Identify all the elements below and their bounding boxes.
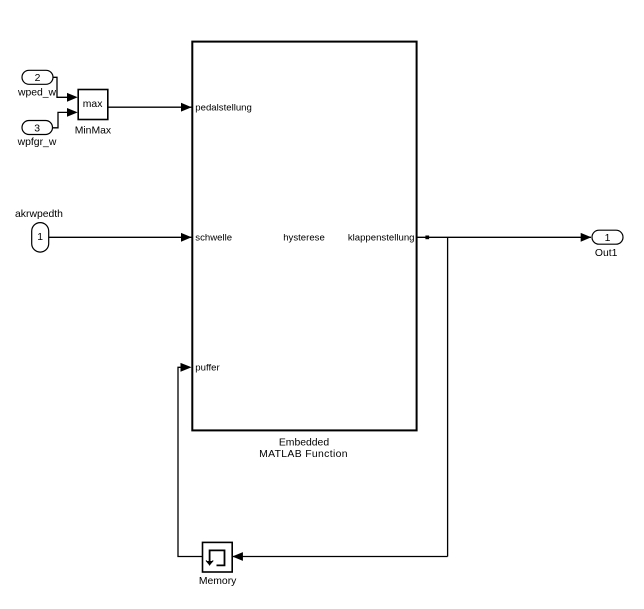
MinMax block <box>78 90 108 120</box>
outport 1 (Out1) <box>592 230 623 244</box>
wire klappenstellung to Out1 <box>417 236 591 238</box>
arrowhead into MinMax input2 <box>67 108 78 117</box>
Memory block <box>203 542 233 572</box>
junction dot <box>425 236 429 240</box>
feedback wire bottom horizontal to Memory <box>233 556 448 558</box>
arrowhead into puffer <box>181 363 192 372</box>
wire port2 to MinMax input1 <box>53 77 69 97</box>
svg-text:klappenstellung: klappenstellung <box>348 233 415 244</box>
svg-text:puffer: puffer <box>195 363 220 374</box>
svg-text:3: 3 <box>34 124 40 135</box>
svg-text:wped_w: wped_w <box>17 88 57 99</box>
arrowhead into Out1 <box>581 233 592 242</box>
svg-text:1: 1 <box>37 232 43 243</box>
wire akrwpedth to schwelle <box>49 236 192 238</box>
wire MinMax output to pedalstellung <box>108 106 192 108</box>
svg-text:wpfgr_w: wpfgr_w <box>17 137 57 148</box>
svg-text:MATLAB Function: MATLAB Function <box>259 449 348 460</box>
svg-text:pedalstellung: pedalstellung <box>195 103 252 114</box>
arrowhead into Memory <box>232 552 243 561</box>
svg-text:hysterese: hysterese <box>283 233 325 244</box>
inport 2 (wped_w) <box>22 70 53 84</box>
arrowhead into pedalstellung <box>181 103 192 112</box>
wire port3 to MinMax input2 <box>52 112 69 127</box>
arrowhead into schwelle <box>181 233 192 242</box>
arrowhead into MinMax input1 <box>67 93 78 102</box>
Embedded MATLAB Function block <box>192 42 416 431</box>
inport 1 (akrwpedth) <box>32 223 49 253</box>
svg-text:1: 1 <box>605 233 611 244</box>
svg-text:Out1: Out1 <box>595 248 618 259</box>
inport 3 (wpfgr_w) <box>22 121 53 135</box>
feedback wire vertical branch <box>447 237 449 556</box>
wire Memory output to puffer <box>178 367 203 556</box>
svg-text:2: 2 <box>35 73 41 84</box>
svg-text:akrwpedth: akrwpedth <box>15 209 63 220</box>
svg-text:MinMax: MinMax <box>75 125 112 136</box>
svg-text:max: max <box>83 99 103 110</box>
svg-text:Memory: Memory <box>199 576 237 587</box>
svg-text:Embedded: Embedded <box>279 437 329 448</box>
svg-text:schwelle: schwelle <box>195 233 232 244</box>
